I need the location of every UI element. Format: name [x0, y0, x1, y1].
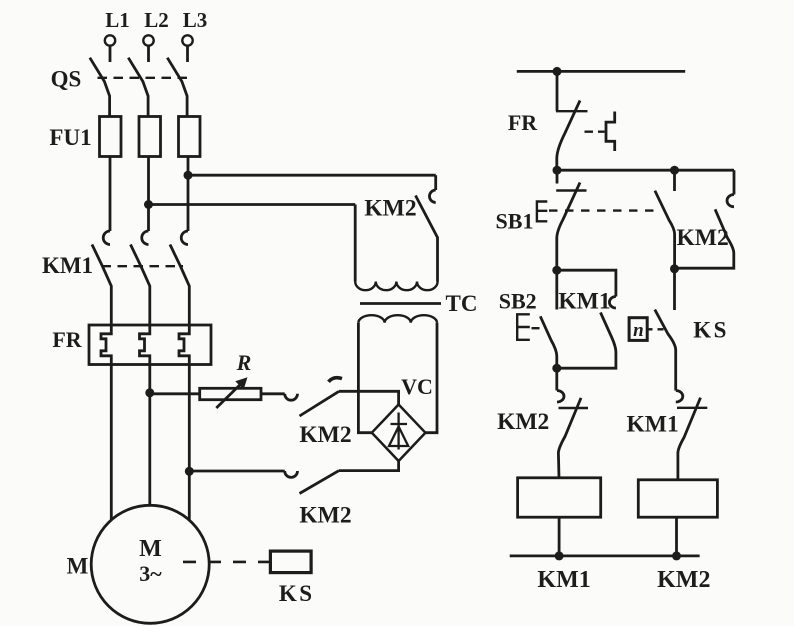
- wire L3 node to KM2 trafo contact: [188, 174, 436, 177]
- rectifier VC diamond: [372, 374, 433, 461]
- coil KM1: [518, 478, 601, 517]
- diode inside VC: [389, 413, 408, 450]
- contact KM2 transformer feed: [364, 175, 437, 281]
- svg-text:KM2: KM2: [299, 503, 351, 529]
- contact KM1 NC interlock (right): [626, 391, 707, 480]
- node SB2 bottom: [552, 364, 561, 373]
- svg-text:VC: VC: [401, 374, 433, 399]
- svg-text:L2: L2: [144, 8, 169, 32]
- node on L3 to transformer: [184, 171, 193, 180]
- resistor R: [200, 350, 261, 408]
- svg-text:KM2: KM2: [657, 567, 710, 593]
- contactor KM1 main contact pole1: [92, 231, 111, 325]
- wire secondary left to rectifier: [358, 323, 371, 433]
- button SB1 NC: [496, 170, 587, 270]
- wire phase3 FR to motor: [188, 365, 191, 521]
- contact SB1 NO (right branch): [655, 170, 675, 269]
- coil KM2: [638, 480, 717, 517]
- node bottom bus right: [672, 551, 681, 560]
- FR heater element 2: [140, 325, 150, 365]
- switch QS: [51, 58, 189, 117]
- FR NC contact: [508, 101, 588, 171]
- contact KS speed relay: [629, 269, 729, 391]
- speed relay KS box: [270, 551, 311, 573]
- svg-text:FR: FR: [52, 327, 82, 352]
- node bus2 mid: [670, 166, 679, 175]
- FR heater element 1: [101, 325, 111, 365]
- svg-text:R: R: [236, 350, 252, 375]
- wire node to KM2 bottom contact: [189, 470, 284, 473]
- wire bus to FR contact: [556, 71, 559, 111]
- wire L2 node to transformer primary: [149, 203, 356, 206]
- node phase3 braking: [185, 467, 194, 476]
- control top bus: [517, 70, 685, 73]
- wire phase1 FR to motor: [110, 365, 113, 521]
- FR dashed link: [585, 130, 605, 132]
- svg-text:M: M: [139, 536, 162, 562]
- fuse FU1 (three): [49, 117, 200, 157]
- node phase2 to resistor: [145, 388, 154, 397]
- svg-text:SB2: SB2: [499, 289, 537, 314]
- svg-text:KM2: KM2: [497, 409, 549, 435]
- transformer TC secondary: [358, 315, 437, 323]
- contactor KM1 main contact pole3: [170, 231, 189, 325]
- svg-text:KM1: KM1: [626, 412, 678, 438]
- svg-text:SB1: SB1: [496, 209, 534, 234]
- wire resistor to KM2 contact: [261, 392, 285, 395]
- motor M: [91, 505, 209, 623]
- svg-text:M: M: [67, 554, 89, 579]
- wire node to resistor: [150, 392, 200, 395]
- svg-text:KS: KS: [279, 581, 315, 606]
- FR heater element 3: [179, 325, 189, 365]
- thermal relay FR box: [89, 325, 211, 365]
- transformer TC primary: [355, 282, 437, 291]
- svg-text:KM2: KM2: [676, 225, 728, 251]
- node SB1 bottom: [552, 266, 561, 275]
- node bus2 left: [553, 166, 562, 175]
- node top bus: [553, 67, 562, 76]
- svg-text:KM1: KM1: [558, 289, 610, 315]
- svg-text:n: n: [633, 320, 644, 341]
- KM1 dashed link: [102, 265, 184, 267]
- svg-text:KM2: KM2: [299, 422, 351, 448]
- wire secondary right to rectifier: [425, 323, 437, 433]
- contact KM2 NC interlock: [497, 368, 588, 478]
- wire KM2 bottom contact to rectifier bottom: [339, 461, 399, 471]
- node on L2 to transformer: [144, 200, 153, 209]
- svg-text:QS: QS: [51, 67, 82, 92]
- FR trip element: [606, 112, 615, 152]
- terminal L1: [105, 8, 130, 62]
- node bottom bus left: [555, 551, 564, 560]
- control bottom bus: [510, 555, 700, 558]
- wire phase2 fuse to KM1: [147, 157, 150, 232]
- wire KM2 top contact to rectifier: [339, 391, 399, 404]
- svg-text:FU1: FU1: [49, 125, 91, 150]
- terminal L2: [143, 8, 168, 62]
- wire phase3 fuse to KM1: [187, 157, 190, 232]
- wire phase2 FR to motor: [148, 365, 151, 506]
- contact KM2 self-lock (right): [675, 170, 735, 268]
- transformer core: [360, 302, 441, 305]
- svg-text:TC: TC: [446, 291, 478, 316]
- contact KM2 braking bottom: [285, 471, 352, 529]
- wire coil KM2 to bottom bus: [675, 517, 678, 556]
- button SB2 NO: [499, 270, 557, 368]
- node right branch: [670, 264, 679, 273]
- wire primary left: [354, 205, 357, 282]
- svg-text:KM1: KM1: [537, 567, 590, 593]
- svg-text:KM1: KM1: [42, 253, 93, 278]
- SB1 dashed link: [549, 209, 654, 211]
- svg-text:KS: KS: [693, 318, 729, 343]
- terminal L3: [182, 8, 207, 62]
- svg-text:L3: L3: [183, 8, 208, 32]
- contactor KM1 main contact pole2: [131, 231, 150, 325]
- svg-text:KM2: KM2: [364, 196, 416, 222]
- svg-text:FR: FR: [508, 110, 538, 135]
- contact KM2 braking top: [285, 378, 352, 448]
- wire coil KM1 to bottom bus: [558, 517, 561, 556]
- speed relay KS shaft dashed link: [183, 561, 270, 564]
- svg-text:3~: 3~: [139, 561, 162, 586]
- control bus 2: [557, 169, 734, 172]
- contact KM1 self-lock: [557, 270, 616, 368]
- svg-text:L1: L1: [105, 8, 130, 32]
- wire phase1 fuse to KM1: [109, 157, 112, 232]
